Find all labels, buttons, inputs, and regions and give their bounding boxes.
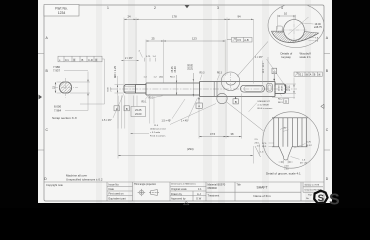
keyway vertical callout: [261, 61, 263, 85]
dim across flats right side: [70, 72, 90, 111]
svg-text:7.964: 7.964: [54, 108, 61, 112]
centering mark bottom: [184, 201, 190, 204]
svg-text:25.00: 25.00: [174, 66, 177, 73]
svg-text:19.00: 19.00: [279, 85, 281, 91]
svg-text:R0.4 in corners: R0.4 in corners: [258, 107, 274, 110]
detail boundary circle: [268, 4, 324, 48]
groove internal marks: [280, 127, 289, 132]
shank: [136, 84, 147, 86]
svg-text:1 × 45°: 1 × 45°: [181, 120, 189, 123]
svg-text:Part: Part: [308, 193, 312, 196]
centering mark top: [185, 5, 190, 8]
svg-text:Original scale: Original scale: [171, 187, 187, 191]
scan bands: [96, 0, 311, 203]
svg-text:Approved by: Approved by: [171, 197, 186, 201]
svg-text:(294): (294): [187, 147, 194, 151]
svg-text:Undercut ø 11.4: Undercut ø 11.4: [150, 128, 166, 131]
svg-text:Similar to 7678: Similar to 7678: [305, 184, 320, 187]
leader balloon to woodruff detail: [237, 42, 268, 77]
section centerlines: [54, 78, 78, 98]
svg-text:Dimensions in Millimetres: Dimensions in Millimetres: [171, 183, 197, 186]
svg-text:10: 10: [284, 11, 288, 15]
svg-text:0.1: 0.1: [65, 58, 69, 62]
left border zone ticks: [38, 54, 330, 151]
FCF top right: [294, 72, 322, 76]
svg-text:A: A: [116, 107, 118, 111]
diagonal centerline in key circle: [288, 17, 309, 35]
runout FCF with leader (top middle-right): [227, 37, 252, 42]
groove width dim below: [279, 160, 294, 164]
svg-text:C-D: C-D: [88, 58, 93, 62]
svg-text:16.3 - 16.1: 16.3 - 16.1: [263, 62, 265, 73]
thread diameter dim: [115, 76, 125, 96]
S stamp: [314, 191, 327, 205]
svg-text:R0.2: R0.2: [278, 99, 283, 101]
end journal diameter dim: [286, 78, 297, 100]
svg-text:Part No.: Part No.: [55, 7, 67, 11]
step to end journal: [274, 82, 276, 97]
gauge dim box 23.25/23.00: [131, 107, 146, 117]
detail balloon on woodruff: [221, 72, 240, 91]
svg-text:23.00: 23.00: [135, 112, 142, 116]
svg-text:45°: 45°: [284, 128, 287, 130]
shaft centerline: [112, 88, 297, 90]
svg-text:0.5: 0.5: [237, 38, 241, 42]
svg-text:M8 × 1.25: M8 × 1.25: [113, 65, 117, 78]
step to section 3: [199, 82, 201, 97]
svg-text:1:1: 1:1: [198, 187, 202, 191]
svg-text:29.95: 29.95: [191, 63, 194, 70]
svg-text:123: 123: [192, 36, 197, 40]
svg-text:18.95: 18.95: [282, 85, 284, 91]
svg-text:2: 2: [154, 6, 156, 10]
small dims near bottom detail: [258, 144, 260, 156]
svg-text:94: 94: [238, 15, 242, 19]
svg-text:UNDERCUT: UNDERCUT: [258, 101, 271, 103]
svg-text:47.5: 47.5: [210, 132, 216, 136]
title block lines: [44, 182, 324, 201]
svg-text:1.5 × 45°: 1.5 × 45°: [102, 119, 112, 122]
svg-text:R0.3: R0.3: [200, 72, 206, 74]
section circle with flats, hatched: [59, 82, 71, 93]
svg-text:Unspecified tolerances ± 0.2: Unspecified tolerances ± 0.2: [66, 178, 103, 182]
svg-text:R0.1: R0.1: [142, 102, 148, 104]
detail balloon on groove: [217, 93, 227, 103]
thread section: [124, 85, 136, 94]
small box in keyway detail: [276, 26, 282, 33]
svg-text:R0.3: R0.3: [217, 72, 223, 74]
Part No box: [44, 5, 79, 17]
dims below shaft 47.5 / 38: [199, 94, 242, 139]
small end slot: [267, 84, 273, 93]
thread profile block: [272, 118, 308, 147]
svg-text:Equivalent part: Equivalent part: [109, 196, 127, 200]
svg-text:080M40: 080M40: [208, 186, 218, 190]
svg-text:D: D: [285, 100, 287, 104]
svg-text:(30): (30): [159, 77, 163, 79]
svg-text:R 0.4 in corners: R 0.4 in corners: [150, 134, 166, 137]
svg-text:B: B: [126, 107, 128, 111]
drawing frame: [44, 5, 324, 201]
third angle projection symbol: [138, 189, 159, 196]
svg-text:B: B: [235, 100, 237, 104]
svg-text:Date: Date: [109, 187, 115, 191]
svg-text:ø18.75: ø18.75: [314, 26, 322, 29]
svg-text:First used on: First used on: [109, 192, 125, 196]
svg-text:A-B: A-B: [244, 38, 249, 42]
small datum boxes below thread: [114, 106, 119, 111]
svg-text:Drawn by: Drawn by: [171, 192, 183, 196]
svg-text:7.937: 7.937: [53, 68, 60, 72]
extension lines above shaft: [124, 18, 254, 85]
centering mark right: [321, 104, 324, 108]
keyway slot: [241, 85, 265, 92]
svg-text:1 × 45°: 1 × 45°: [255, 56, 263, 59]
ext lines below left end: [118, 96, 137, 129]
svg-text:Scrap section X-X: Scrap section X-X: [52, 116, 77, 120]
svg-text:Ⓜ: Ⓜ: [73, 58, 76, 62]
svg-text:keyway: keyway: [282, 55, 292, 59]
diameter dim through section 3: [192, 73, 194, 97]
leader 19.00/18.75: [303, 23, 314, 24]
groove profile: [279, 147, 292, 160]
svg-text:scale 2:1: scale 2:1: [300, 55, 312, 59]
feature control frame above section: [58, 56, 102, 62]
dimension line level 2 (y41): 25 / 123: [146, 40, 225, 42]
svg-text:1234: 1234: [58, 11, 66, 15]
diameter dim through section 2: [176, 75, 178, 95]
dim 21 (left of section): [56, 82, 62, 93]
svg-text:SHAFT: SHAFT: [256, 186, 267, 190]
datum C above shaft: [272, 68, 277, 81]
svg-text:Third angle projection: Third angle projection: [134, 183, 157, 186]
paper sheet: [38, 0, 332, 203]
svg-text:3: 3: [217, 6, 219, 10]
svg-text:G.W: G.W: [196, 197, 202, 201]
svg-text:B: B: [82, 58, 84, 62]
svg-text:178: 178: [172, 15, 177, 19]
hatched crescent keyway area: [272, 31, 319, 42]
grid reference labels: [44, 6, 329, 181]
detail boundary circle: [263, 112, 319, 168]
svg-text:17.95: 17.95: [289, 85, 291, 91]
undercut groove on shaft: [214, 82, 217, 97]
svg-text:Ⓜ: Ⓜ: [95, 58, 98, 62]
shaft outline: [124, 82, 286, 97]
key circle centerlines: [282, 17, 308, 45]
svg-text:ø 3.2 WIDE: ø 3.2 WIDE: [258, 104, 270, 106]
woodruff pocket arc: [226, 82, 236, 86]
svg-text:Detail of groove, scale 4:1: Detail of groove, scale 4:1: [266, 171, 301, 175]
shaft OD arc (bottom of crescent): [272, 31, 319, 42]
dim 10 above keyway opening: [278, 15, 296, 30]
svg-text:23.25: 23.25: [135, 108, 142, 112]
svg-text:Copyright note: Copyright note: [46, 183, 63, 187]
svg-text:S: S: [329, 192, 340, 209]
svg-text:S: S: [318, 193, 324, 204]
svg-text:R 0.2: R 0.2: [307, 145, 313, 147]
svg-text:× 3.2 wide: × 3.2 wide: [150, 131, 161, 134]
svg-text:2 × 45°: 2 × 45°: [125, 57, 133, 60]
leader balloon to groove detail: [226, 102, 264, 132]
title block texts: [46, 183, 322, 201]
svg-text:1: 1: [107, 6, 109, 10]
svg-text:Name of firm: Name of firm: [253, 194, 271, 198]
svg-text:24: 24: [128, 15, 132, 19]
step to section 2: [145, 83, 147, 95]
thread root lines: [125, 86, 136, 91]
datum B below shaft: [233, 97, 238, 104]
svg-text:25: 25: [152, 36, 156, 40]
svg-text:1.5 × 45°: 1.5 × 45°: [162, 120, 172, 123]
svg-text:45° chf: 45° chf: [300, 162, 307, 164]
svg-text:R0.3: R0.3: [278, 102, 283, 104]
svg-text:Issue No: Issue No: [109, 183, 120, 187]
dimension line level 1 (y19): 24 / 178 / 94: [124, 18, 254, 20]
svg-text:R0.3: R0.3: [170, 77, 175, 79]
svg-text:Title: Title: [237, 183, 242, 186]
overall length dim (294): [118, 96, 253, 164]
centering mark left: [39, 95, 43, 100]
key circle: [284, 20, 305, 41]
svg-text:Material BS970: Material BS970: [208, 183, 226, 187]
datum A below shaft: [196, 97, 202, 109]
notes above title block: [66, 174, 103, 182]
svg-text:Treatment: Treatment: [208, 193, 220, 197]
